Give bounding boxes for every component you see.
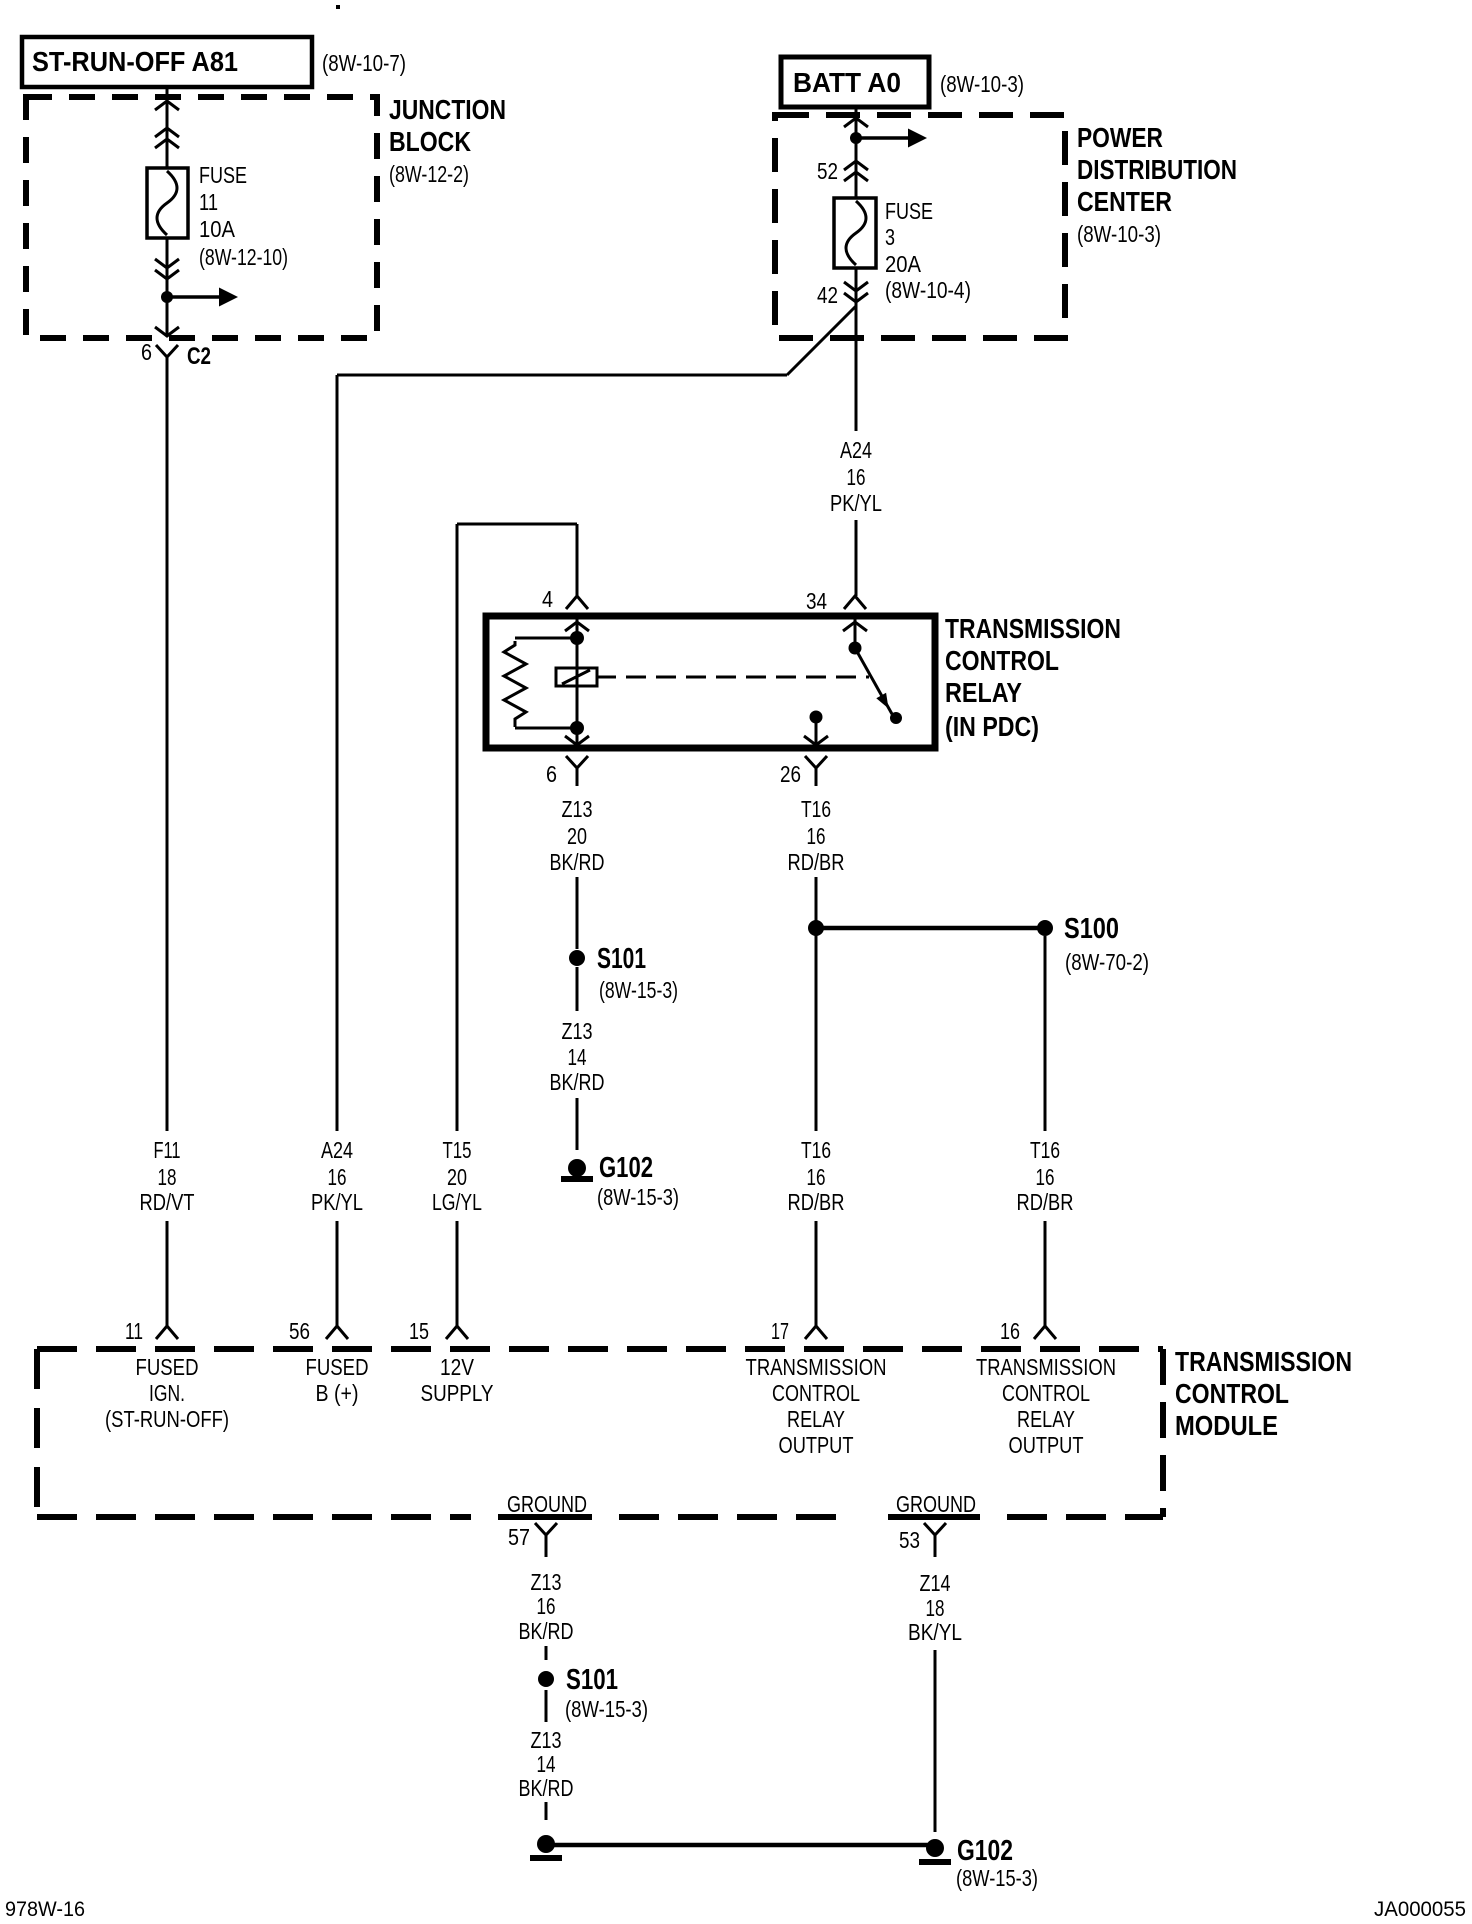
svg-text:(ST-RUN-OFF): (ST-RUN-OFF)	[105, 1406, 229, 1432]
svg-text:CONTROL: CONTROL	[945, 645, 1059, 676]
wire T16 pin 16 lower segment	[1044, 1221, 1047, 1326]
module pin 53 connector fork	[924, 1523, 946, 1535]
svg-text:RELAY: RELAY	[1017, 1406, 1075, 1432]
relay pin 34 connector fork	[844, 596, 866, 609]
chevron inside relay at pin 6	[565, 736, 589, 745]
relay pin 26 connector fork	[805, 756, 827, 768]
power feed box BATT A0	[781, 57, 929, 107]
relay output contact pin 26	[810, 711, 823, 724]
relay coil resistor zigzag	[504, 641, 526, 727]
svg-text:BK/RD: BK/RD	[519, 1618, 574, 1644]
svg-text:A24: A24	[321, 1137, 353, 1163]
svg-text:RD/VT: RD/VT	[140, 1189, 195, 1215]
connector 52 double chevron	[844, 161, 868, 170]
svg-text:RELAY: RELAY	[787, 1406, 845, 1432]
wire to splice S101 bottom	[545, 1646, 548, 1660]
wire A24 to module pin 56	[336, 1221, 339, 1326]
svg-text:18: 18	[158, 1164, 177, 1190]
svg-text:GROUND: GROUND	[507, 1491, 587, 1517]
svg-text:(IN PDC): (IN PDC)	[945, 711, 1039, 742]
svg-text:S100: S100	[1064, 913, 1119, 945]
svg-text:BK/RD: BK/RD	[519, 1775, 574, 1801]
svg-text:RD/BR: RD/BR	[788, 1189, 845, 1215]
svg-text:10A: 10A	[199, 216, 236, 242]
junction block dashed box	[26, 97, 377, 338]
wire A24 to relay pin 34	[855, 520, 858, 596]
svg-text:(8W-15-3): (8W-15-3)	[599, 977, 678, 1003]
svg-text:FUSED: FUSED	[306, 1354, 369, 1380]
svg-text:FUSE: FUSE	[199, 162, 247, 188]
svg-text:FUSE: FUSE	[885, 198, 933, 224]
svg-text:16: 16	[1036, 1164, 1055, 1190]
svg-text:POWER: POWER	[1077, 122, 1163, 153]
chevron at junction block top edge	[155, 101, 179, 110]
svg-text:20: 20	[447, 1164, 467, 1190]
chevron inside relay at pin 34	[843, 622, 867, 631]
transmission control relay box	[486, 616, 935, 748]
svg-text:A24: A24	[840, 437, 872, 463]
svg-text:TRANSMISSION: TRANSMISSION	[945, 613, 1121, 644]
wire F11 from C2 down	[166, 372, 169, 1131]
svg-text:17: 17	[771, 1318, 789, 1344]
svg-text:(8W-70-2): (8W-70-2)	[1065, 949, 1149, 975]
wire T16 from S100 down	[1044, 936, 1047, 1131]
svg-text:20: 20	[567, 823, 587, 849]
wire Z13 to splice S101	[576, 877, 579, 949]
scan speck	[336, 5, 340, 9]
svg-text:34: 34	[806, 588, 827, 614]
svg-text:Z13: Z13	[531, 1727, 562, 1753]
svg-text:Z13: Z13	[531, 1569, 562, 1595]
ground G102 symbol	[926, 1839, 944, 1857]
wire ST-RUN-OFF feed into junction block	[166, 87, 169, 168]
svg-text:SUPPLY: SUPPLY	[421, 1380, 494, 1406]
splice junction to S100	[808, 920, 824, 936]
svg-text:CONTROL: CONTROL	[772, 1380, 860, 1406]
svg-text:(8W-15-3): (8W-15-3)	[565, 1696, 648, 1722]
wire T16 down to module pin 17	[815, 877, 818, 1131]
svg-text:DISTRIBUTION: DISTRIBUTION	[1077, 154, 1237, 185]
svg-text:(8W-10-4): (8W-10-4)	[885, 277, 971, 303]
junction dot with branch arrow	[161, 291, 173, 303]
splice S101	[569, 950, 585, 966]
module pin 17 connector fork	[805, 1326, 827, 1339]
wire Z14 to ground G102	[934, 1650, 937, 1832]
relay actuation dashed link	[596, 676, 869, 679]
chevron inside relay at pin 4	[565, 622, 589, 631]
svg-text:(8W-12-2): (8W-12-2)	[389, 161, 469, 187]
svg-text:16: 16	[537, 1593, 556, 1619]
splice branch diagonal to A24 feed wire	[787, 306, 856, 375]
svg-text:CENTER: CENTER	[1077, 186, 1172, 217]
svg-text:S101: S101	[597, 943, 646, 975]
wire to left ground	[545, 1802, 548, 1820]
wire T16 pin 17 lower segment	[815, 1221, 818, 1326]
svg-text:11: 11	[199, 189, 218, 215]
relay pin 4 connector fork	[566, 596, 588, 609]
svg-text:16: 16	[807, 1164, 826, 1190]
module pin 57 connector fork	[535, 1523, 557, 1535]
svg-text:T16: T16	[801, 796, 831, 822]
svg-text:16: 16	[328, 1164, 347, 1190]
svg-text:PK/YL: PK/YL	[830, 490, 882, 516]
module pin 15 connector fork	[446, 1326, 468, 1339]
wire T15 to module pin 15	[456, 1221, 459, 1326]
svg-text:BATT A0: BATT A0	[793, 67, 901, 98]
svg-text:G102: G102	[957, 1835, 1013, 1867]
svg-text:16: 16	[847, 464, 866, 490]
svg-text:(8W-10-3): (8W-10-3)	[1077, 221, 1161, 247]
svg-text:CONTROL: CONTROL	[1175, 1378, 1289, 1409]
wire to ground G102	[576, 1098, 579, 1150]
svg-text:RD/BR: RD/BR	[788, 849, 845, 875]
relay coil feed wire pin 4 to pin 6	[576, 619, 579, 745]
wire fuse 11 output	[166, 238, 169, 337]
svg-text:TRANSMISSION: TRANSMISSION	[1175, 1346, 1352, 1377]
relay coil resistor connections	[515, 637, 577, 640]
svg-text:6: 6	[141, 339, 152, 365]
svg-text:3: 3	[885, 224, 895, 250]
svg-text:Z13: Z13	[562, 796, 593, 822]
svg-text:LG/YL: LG/YL	[432, 1189, 482, 1215]
splice S100	[1037, 920, 1053, 936]
ground interconnect wire	[553, 1843, 928, 1848]
svg-text:14: 14	[568, 1044, 587, 1070]
splice S101 bottom	[538, 1671, 554, 1687]
connector 42 double chevron	[844, 282, 868, 291]
svg-text:GROUND: GROUND	[896, 1491, 976, 1517]
svg-text:S101: S101	[566, 1664, 618, 1696]
relay switch movable arm	[855, 648, 892, 714]
wire fuse 3 output A24	[855, 268, 858, 431]
svg-text:T16: T16	[1030, 1137, 1060, 1163]
power feed box ST-RUN-OFF A81	[22, 37, 312, 87]
svg-text:(8W-10-7): (8W-10-7)	[322, 50, 406, 76]
wire A24 branch down	[336, 375, 339, 1131]
svg-text:RD/BR: RD/BR	[1017, 1189, 1074, 1215]
svg-text:T15: T15	[443, 1137, 472, 1163]
svg-text:OUTPUT: OUTPUT	[1009, 1432, 1084, 1458]
fuse 11 10A	[147, 168, 188, 238]
wire A24 branch horizontal	[337, 374, 787, 377]
svg-text:20A: 20A	[885, 251, 922, 277]
svg-text:TRANSMISSION: TRANSMISSION	[746, 1354, 887, 1380]
svg-text:15: 15	[409, 1318, 429, 1344]
chevron inside relay at pin 26	[804, 736, 828, 745]
svg-text:56: 56	[289, 1318, 310, 1344]
relay coil box	[556, 668, 597, 686]
svg-text:(8W-15-3): (8W-15-3)	[597, 1184, 679, 1210]
svg-text:BK/RD: BK/RD	[550, 1069, 605, 1095]
relay pin 6 connector fork	[566, 756, 588, 768]
wire below S101 bottom	[545, 1690, 548, 1722]
svg-text:MODULE: MODULE	[1175, 1410, 1278, 1441]
svg-text:11: 11	[125, 1318, 143, 1344]
svg-text:42: 42	[817, 282, 838, 308]
double chevron below fuse 11	[155, 259, 179, 268]
wire below S101	[576, 967, 579, 1011]
connector C2 pin 6	[156, 345, 178, 357]
svg-text:PK/YL: PK/YL	[311, 1189, 363, 1215]
module pin 11 connector fork	[156, 1326, 178, 1339]
svg-text:G102: G102	[599, 1152, 653, 1184]
svg-text:Z14: Z14	[920, 1570, 951, 1596]
svg-text:18: 18	[926, 1595, 945, 1621]
ground G102 mid symbol	[568, 1159, 586, 1177]
relay switch common from pin 34	[854, 619, 857, 648]
in-line connector double chevron	[155, 128, 179, 137]
ground symbol left	[537, 1835, 555, 1853]
chevron at junction block bottom edge	[155, 327, 179, 336]
svg-text:TRANSMISSION: TRANSMISSION	[976, 1354, 1116, 1380]
svg-text:57: 57	[508, 1524, 530, 1550]
relay switch contact dot	[890, 712, 902, 724]
svg-text:BLOCK: BLOCK	[389, 126, 471, 157]
module pin 56 connector fork	[326, 1326, 348, 1339]
svg-text:16: 16	[1000, 1318, 1020, 1344]
svg-text:(8W-10-3): (8W-10-3)	[940, 71, 1024, 97]
svg-text:OUTPUT: OUTPUT	[779, 1432, 854, 1458]
svg-text:F11: F11	[154, 1137, 181, 1163]
svg-text:JUNCTION: JUNCTION	[389, 94, 506, 125]
svg-text:26: 26	[780, 761, 801, 787]
module box bottom edge solid segments under GROUND	[498, 1514, 592, 1520]
svg-text:IGN.: IGN.	[149, 1380, 185, 1406]
power distribution center dashed box	[775, 115, 1065, 338]
svg-text:T16: T16	[801, 1137, 831, 1163]
svg-text:CONTROL: CONTROL	[1002, 1380, 1090, 1406]
junction dot with branch arrow	[850, 132, 862, 144]
wire F11 to module pin 11	[166, 1221, 169, 1326]
svg-text:14: 14	[537, 1751, 556, 1777]
svg-text:B (+): B (+)	[316, 1380, 359, 1406]
svg-text:53: 53	[899, 1527, 920, 1553]
svg-text:FUSED: FUSED	[136, 1354, 199, 1380]
svg-text:6: 6	[546, 761, 557, 787]
svg-text:12V: 12V	[440, 1354, 475, 1380]
wire T15 12V supply	[456, 524, 459, 1131]
svg-text:BK/YL: BK/YL	[908, 1619, 962, 1645]
svg-text:52: 52	[817, 158, 838, 184]
chevron at PDC top edge	[844, 118, 868, 127]
fuse 3 20A	[834, 198, 876, 268]
wire T15 jog to relay pin 4	[457, 523, 577, 526]
svg-text:JA000055: JA000055	[1374, 1898, 1466, 1921]
svg-text:RELAY: RELAY	[945, 677, 1022, 708]
svg-text:(8W-12-10): (8W-12-10)	[199, 244, 288, 270]
svg-text:BK/RD: BK/RD	[550, 849, 605, 875]
svg-text:Z13: Z13	[562, 1018, 593, 1044]
svg-text:978W-16: 978W-16	[5, 1898, 85, 1921]
module pin 16 connector fork	[1034, 1326, 1056, 1339]
svg-text:(8W-15-3): (8W-15-3)	[956, 1865, 1038, 1891]
relay coil node dots	[570, 631, 584, 645]
wire BATT A0 into PDC	[855, 107, 858, 198]
svg-text:16: 16	[807, 823, 826, 849]
svg-text:4: 4	[542, 586, 553, 612]
svg-text:ST-RUN-OFF A81: ST-RUN-OFF A81	[32, 46, 238, 77]
transmission control module dashed box	[37, 1346, 1163, 1352]
svg-text:C2: C2	[187, 343, 211, 370]
